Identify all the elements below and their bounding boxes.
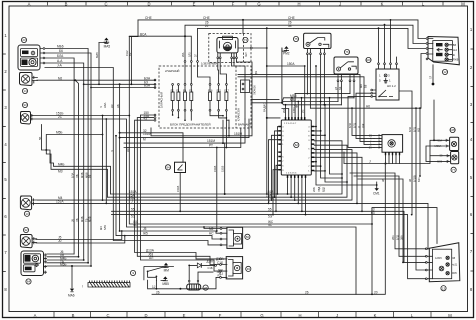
- svg-text:62: 62: [295, 143, 299, 147]
- svg-text:1J: 1J: [152, 285, 156, 289]
- instrument cluster connector U1: [281, 120, 311, 175]
- svg-text:БЛОК ПРЕДОХРАНИТЕЛЕЙ: БЛОК ПРЕДОХРАНИТЕЛЕЙ: [170, 123, 211, 127]
- wire 207 to trapezoid top: [371, 208, 437, 244]
- svg-text:МБ6: МБ6: [57, 45, 64, 49]
- circled label 13: [24, 211, 29, 216]
- horn: [187, 280, 201, 290]
- circled label 14: [22, 88, 27, 93]
- svg-text:БЛ1: БЛ1: [413, 126, 417, 132]
- wire J-A: [45, 64, 220, 245]
- svg-text:Б8: Б8: [364, 84, 368, 88]
- side repeater lamp left: [20, 112, 32, 125]
- fuse bottom joins: [172, 111, 229, 121]
- svg-text:54: 54: [288, 24, 292, 28]
- svg-text:МJ: МJ: [58, 76, 63, 80]
- svg-text:3: 3: [470, 102, 473, 107]
- svg-text:1/КРАСНЫЙ: 1/КРАСНЫЙ: [160, 92, 164, 108]
- left coordinate numbers: [4, 33, 7, 292]
- ground MA6: [68, 266, 75, 298]
- PM2 drop and fan: [251, 48, 354, 109]
- svg-text:6: 6: [4, 214, 7, 219]
- svg-text:4С: 4С: [268, 223, 273, 227]
- svg-text:БЛ2: БЛ2: [408, 126, 412, 132]
- verticals 316-325: [312, 65, 377, 192]
- svg-text:Д5: Д5: [335, 86, 338, 90]
- svg-text:7: 7: [4, 250, 7, 255]
- svg-text:7: 7: [282, 161, 284, 163]
- svg-text:151В: 151В: [221, 166, 225, 172]
- wire labels bottom: [146, 249, 225, 277]
- switch box component 7: [165, 162, 185, 211]
- rear unit wire J6: [47, 250, 74, 254]
- svg-text:E: E: [183, 313, 186, 318]
- right lamp bracket 39A: [426, 100, 447, 161]
- svg-text:4: 4: [4, 142, 7, 147]
- svg-text:2/ЧЕРНЫЙ: 2/ЧЕРНЫЙ: [165, 69, 179, 73]
- fuse bottom bus 43: [135, 117, 220, 259]
- svg-text:6: 6: [282, 165, 284, 167]
- wire B2 vertical: [128, 37, 132, 86]
- svg-text:50: 50: [246, 235, 250, 239]
- wire bus 54: [198, 24, 426, 83]
- rear unit wire TB: [47, 259, 89, 263]
- svg-text:151В: 151В: [176, 186, 180, 192]
- svg-text:МА6: МА6: [68, 294, 75, 298]
- wire fog M4 bus 200: [37, 150, 352, 201]
- svg-text:14E: 14E: [22, 51, 27, 55]
- rear lamp unit left: [21, 251, 44, 276]
- svg-text:М2: М2: [209, 227, 214, 231]
- vertical 224.7: [221, 142, 226, 195]
- svg-text:ВСА: ВСА: [140, 32, 147, 36]
- CM1 drop: [376, 184, 378, 186]
- svg-text:А-А: А-А: [57, 59, 63, 63]
- svg-text:1: 1: [379, 73, 381, 77]
- wire bus 197 25A: [108, 145, 348, 198]
- svg-text:№21: №21: [452, 264, 458, 267]
- svg-text:2: 2: [308, 157, 310, 159]
- svg-text:64: 64: [27, 280, 31, 284]
- svg-text:151В: 151В: [213, 166, 217, 172]
- svg-text:1: 1: [470, 27, 473, 32]
- svg-text:УС: УС: [302, 109, 305, 113]
- wire M5B: [38, 131, 104, 151]
- svg-text:Д: Д: [255, 71, 258, 75]
- fuse bottom bus 25A: [137, 114, 219, 265]
- svg-text:2Б1: 2Б1: [391, 235, 395, 240]
- svg-text:ДЖ: ДЖ: [361, 123, 365, 128]
- motor pin wires: [218, 59, 252, 119]
- svg-text:D: D: [144, 313, 147, 318]
- relay K1 pin drops: [295, 55, 350, 179]
- wiper motor right pin wire: [238, 47, 268, 57]
- svg-text:1 2 3 4 5 6 7: 1 2 3 4 5 6 7: [284, 123, 297, 125]
- svg-text:MM: MM: [22, 62, 26, 66]
- svg-text:J-А: J-А: [57, 64, 63, 68]
- svg-text:93: 93: [23, 103, 27, 107]
- svg-text:6: 6: [470, 212, 473, 217]
- U1 left pins: [278, 127, 284, 172]
- ground MA5 top: [99, 38, 110, 49]
- fog lamp left: [20, 196, 36, 210]
- svg-text:M: M: [448, 313, 452, 318]
- svg-text:8: 8: [4, 287, 7, 292]
- circled label 12: [442, 69, 447, 74]
- svg-text:Б6: Б6: [59, 49, 63, 53]
- svg-text:5ЛБ: 5ЛБ: [103, 225, 107, 230]
- wire M 137: [119, 119, 249, 141]
- circled label 23: [21, 37, 26, 42]
- svg-text:J5: J5: [143, 227, 147, 231]
- svg-text:1 2 3 4 5 6: 1 2 3 4 5 6: [286, 172, 297, 174]
- svg-text:КЛАКСОН: КЛАКСОН: [237, 108, 241, 121]
- svg-text:K: K: [374, 313, 377, 318]
- wire bus 214 5E: [112, 108, 426, 279]
- circled label 75: [293, 36, 298, 41]
- U1 top pins: [284, 117, 305, 125]
- wire 150A: [263, 27, 306, 194]
- rear unit wire LB: [47, 253, 80, 258]
- svg-text:2: 2: [4, 69, 7, 74]
- svg-text:БЛА: БЛА: [57, 54, 64, 58]
- svg-text:M: M: [461, 1, 465, 6]
- svg-text:ЛЮЧОК: ЛЮЧОК: [253, 85, 257, 95]
- svg-text:7: 7: [308, 166, 310, 168]
- svg-text:C: C: [106, 313, 109, 318]
- rear lamp right lower: [437, 152, 459, 173]
- svg-text:Н0: Н0: [366, 104, 370, 108]
- svg-text:2Л: 2Л: [195, 54, 198, 57]
- svg-text:М4Б: М4Б: [80, 216, 84, 222]
- svg-text:38А: 38А: [400, 235, 404, 240]
- fuse box dashed enclosure: [159, 62, 251, 129]
- wire bus 26: [185, 21, 426, 84]
- svg-text:БЛ2: БЛ2: [348, 122, 352, 128]
- turn lamp front left: [19, 73, 37, 86]
- svg-text:38: 38: [381, 179, 385, 182]
- connector ground stub: [430, 65, 435, 86]
- svg-text:С1Б: С1Б: [217, 261, 223, 265]
- circled label 64: [26, 279, 31, 284]
- U1 right pin links: [314, 126, 326, 172]
- U1 bottom pins: [286, 172, 306, 178]
- svg-text:БЛ5: БЛ5: [189, 52, 192, 57]
- svg-text:5: 5: [282, 157, 284, 159]
- svg-text:H: H: [298, 313, 301, 318]
- svg-text:ММ: ММ: [164, 269, 170, 273]
- tail lamp left: [20, 235, 36, 248]
- svg-text:2: 2: [282, 140, 284, 142]
- horn drop diode wire: [188, 265, 213, 281]
- svg-text:Э: Э: [132, 271, 134, 275]
- svg-text:5: 5: [308, 149, 310, 151]
- ground PM2: [282, 46, 290, 55]
- svg-text:14: 14: [23, 89, 27, 93]
- wire H0 bus: [310, 54, 425, 110]
- relay K2 right: [334, 57, 358, 82]
- circled label 92: [23, 227, 28, 232]
- svg-text:B: B: [65, 1, 68, 6]
- U1 bottom pin drops: [288, 178, 306, 215]
- svg-text:РАДИО: РАДИО: [263, 103, 267, 112]
- wire bus 84 to fusebox: [84, 80, 155, 85]
- svg-text:1: 1: [282, 144, 284, 146]
- svg-text:13: 13: [25, 212, 29, 216]
- wire headlamp B6: [45, 49, 92, 266]
- svg-text:3: 3: [388, 73, 390, 77]
- wire 143: [124, 119, 245, 144]
- diode D1: [190, 260, 217, 271]
- svg-text:20Б: 20Б: [312, 187, 316, 192]
- svg-text:БЛА: БЛА: [71, 172, 75, 178]
- circled label 73: [243, 37, 248, 42]
- svg-text:ВД: ВД: [339, 86, 342, 90]
- svg-text:НО: НО: [417, 128, 421, 132]
- svg-text:М4Б: М4Б: [58, 162, 65, 166]
- svg-text:ЛБ: ЛБ: [75, 174, 79, 178]
- svg-text:151А: 151А: [56, 200, 64, 204]
- wire bus 235: [115, 135, 220, 239]
- vertical bundle labels left: [71, 102, 131, 230]
- wire bus 87 to fusebox: [91, 77, 155, 88]
- svg-text:Б5А: Б5А: [144, 84, 151, 88]
- fuse bottom bus 150: [141, 111, 220, 271]
- svg-text:C: C: [104, 1, 107, 6]
- wire tail J5: [36, 230, 123, 240]
- svg-text:М4Б: М4Б: [80, 172, 84, 178]
- svg-text:МВ5: МВ5: [162, 282, 169, 286]
- wiper motor dashed enclosure: [209, 34, 251, 63]
- svg-text:94: 94: [166, 166, 170, 170]
- svg-text:1: 1: [4, 33, 7, 38]
- svg-text:77: 77: [452, 168, 456, 172]
- J bus ignition: [344, 152, 430, 165]
- svg-text:БЛ2: БЛ2: [395, 234, 399, 240]
- svg-text:СНЕ: СНЕ: [145, 16, 152, 20]
- wire bus J5 231: [120, 227, 221, 233]
- stalk drop: [156, 280, 158, 289]
- svg-text:151М: 151М: [143, 132, 151, 136]
- svg-text:Б21: Б21: [417, 177, 421, 182]
- U1 top pin drops: [282, 66, 305, 117]
- wire 147: [124, 128, 241, 148]
- svg-text:5: 5: [470, 175, 473, 180]
- wire 32: [120, 129, 183, 162]
- svg-text:G: G: [260, 313, 263, 318]
- svg-text:5Э: 5Э: [131, 215, 136, 219]
- svg-text:ЛВД: ЛВД: [317, 187, 321, 192]
- svg-text:DIP: DIP: [25, 258, 30, 262]
- svg-text:130С: 130С: [293, 107, 296, 113]
- wire bus CHE top: [138, 16, 426, 39]
- svg-text:№4: №4: [453, 49, 458, 52]
- svg-text:150А: 150А: [287, 62, 295, 66]
- vertical 119: [119, 84, 121, 232]
- svg-text:13: 13: [442, 286, 446, 290]
- switch top pin wires: [359, 19, 397, 88]
- ignition feeds: [348, 93, 374, 147]
- svg-text:73: 73: [244, 38, 248, 42]
- svg-text:1: 1: [308, 171, 310, 173]
- svg-text:12345: 12345: [435, 257, 442, 260]
- svg-text:Ж5: Ж5: [143, 232, 148, 236]
- svg-text:НС: НС: [209, 232, 214, 236]
- ground MB5: [161, 276, 169, 285]
- wire repeater 2C: [33, 115, 356, 294]
- svg-text:PM2: PM2: [283, 52, 290, 56]
- svg-text:23: 23: [22, 38, 26, 42]
- wire 151M: [143, 119, 252, 136]
- svg-text:2: 2: [470, 65, 473, 70]
- svg-text:Ч: Ч: [110, 150, 114, 152]
- ground MM small: [163, 263, 170, 273]
- wiper motor M: [217, 36, 238, 58]
- bottom right trapezoid connector: [425, 243, 459, 282]
- svg-text:55: 55: [268, 207, 272, 211]
- svg-text:J: J: [369, 160, 371, 164]
- wire BCA: [129, 32, 198, 83]
- svg-text:3: 3: [308, 140, 310, 142]
- wire bus 194 151A: [111, 141, 343, 195]
- svg-text:Б6: Б6: [88, 174, 92, 178]
- svg-text:7: 7: [470, 249, 473, 254]
- svg-text:М5Б: М5Б: [60, 263, 67, 267]
- right coordinate numbers: [470, 27, 473, 292]
- svg-text:М5Б: М5Б: [88, 216, 92, 222]
- svg-text:ЗЕЛ: ЗЕЛ: [245, 52, 248, 57]
- wire tail LB: [36, 235, 126, 243]
- svg-text:3: 3: [4, 105, 7, 110]
- svg-text:4: 4: [282, 127, 284, 129]
- svg-text:26А: 26А: [182, 52, 185, 57]
- svg-text:105: 105: [450, 128, 455, 132]
- interior buzzer connector: [217, 257, 251, 279]
- svg-text:20: 20: [374, 290, 378, 294]
- svg-text:K: K: [381, 1, 384, 6]
- svg-text:С1Б: С1Б: [208, 266, 213, 270]
- svg-text:A: A: [34, 313, 37, 318]
- trapezoid feed bundle: [350, 173, 426, 263]
- wire MA5 drop: [95, 43, 100, 86]
- svg-text:D: D: [147, 1, 150, 6]
- vertical 216: [213, 148, 218, 232]
- ignition switch: [369, 133, 403, 155]
- verticals 102 106: [102, 115, 108, 204]
- fusebox small box: [241, 80, 250, 93]
- wire repeater drop: [42, 125, 47, 151]
- svg-text:6: 6: [308, 131, 310, 133]
- svg-text:MA5: MA5: [104, 44, 111, 48]
- svg-text:J6: J6: [71, 219, 75, 222]
- circled label 76: [344, 49, 349, 54]
- fuse exits down: [223, 120, 230, 147]
- svg-text:63: 63: [371, 211, 375, 215]
- relay K2 pin drops: [335, 81, 354, 104]
- svg-text:2С: 2С: [58, 115, 63, 119]
- stalk switch bottom: [130, 266, 174, 280]
- svg-text:ЛЛ: ЛЛ: [430, 75, 433, 79]
- svg-text:ВД2: ВД2: [322, 186, 326, 192]
- svg-text:J0: J0: [58, 239, 62, 243]
- rear unit wire M4B: [47, 256, 85, 261]
- svg-text:J: J: [339, 1, 341, 6]
- svg-text:H: H: [297, 1, 300, 6]
- svg-text:8: 8: [308, 135, 310, 137]
- svg-text:БЛ1: БЛ1: [353, 122, 357, 128]
- svg-text:БВ: БВ: [453, 44, 457, 47]
- bottom bus 20: [152, 164, 385, 296]
- svg-text:5: 5: [4, 177, 7, 182]
- right side verticals to trapezoid: [399, 91, 421, 215]
- rear lamp right upper: [435, 127, 459, 150]
- svg-text:АЛ: АЛ: [149, 256, 153, 260]
- svg-text:МБ: МБ: [359, 84, 363, 88]
- svg-text:ДС: ДС: [110, 104, 114, 108]
- svg-text:G: G: [257, 1, 260, 6]
- svg-text:26: 26: [156, 290, 160, 294]
- circled label 47: [203, 285, 208, 290]
- svg-text:СНЕ: СНЕ: [203, 16, 210, 20]
- wire headlamp MB6: [45, 45, 88, 263]
- svg-text:(: (: [82, 284, 83, 288]
- circled label 13b: [441, 286, 446, 291]
- circled label 93: [22, 102, 27, 107]
- headlamp unit left E1: [18, 45, 40, 70]
- svg-text:J: J: [336, 313, 338, 318]
- ignition bottom pin drops: [386, 155, 400, 163]
- fusebox right exit 76: [238, 77, 374, 145]
- fuses F2 F1 F4 F3: [171, 84, 193, 112]
- svg-text:F: F: [219, 313, 222, 318]
- svg-text:МЗ: МЗ: [58, 170, 63, 174]
- svg-text:43: 43: [144, 117, 148, 121]
- svg-text:12: 12: [443, 70, 447, 74]
- svg-text:М5Б: М5Б: [56, 131, 63, 135]
- svg-text:100: 100: [366, 58, 371, 62]
- wire repeater 151B: [33, 112, 129, 116]
- svg-text:2J: 2J: [205, 24, 209, 28]
- 1J bus: [148, 277, 220, 289]
- vertical 329: [329, 97, 343, 175]
- rear unit wire M5B: [47, 263, 92, 268]
- svg-text:26: 26: [305, 290, 309, 294]
- svg-text:М4: М4: [99, 226, 103, 230]
- wire staircase M3: [46, 150, 107, 197]
- svg-text:8: 8: [470, 287, 473, 292]
- svg-text:5Э: 5Э: [268, 215, 273, 219]
- svg-text:Б2: Б2: [128, 52, 132, 56]
- U1 left pin drops: [268, 127, 279, 216]
- wire fog 151A bus 203: [37, 200, 428, 249]
- svg-text:М05: М05: [452, 272, 457, 275]
- riser 362: [314, 157, 363, 212]
- svg-text:СНЕ: СНЕ: [288, 16, 295, 20]
- small relay G bottom center: [220, 227, 250, 248]
- svg-text:1: 1: [389, 79, 391, 83]
- svg-text:4: 4: [308, 127, 310, 129]
- svg-text:B: B: [72, 313, 75, 318]
- top right connector X1: [426, 37, 459, 65]
- svg-text:Ч: Ч: [99, 106, 103, 108]
- wire staircase M4B: [46, 150, 110, 194]
- svg-text:4: 4: [470, 137, 473, 142]
- svg-text:151М: 151М: [207, 139, 215, 143]
- svg-text:Н0 1.2: Н0 1.2: [387, 84, 396, 88]
- rear unit pins: [44, 254, 47, 274]
- svg-text:М: М: [143, 137, 146, 141]
- svg-text:E: E: [193, 1, 196, 6]
- top coordinate letters: [28, 1, 466, 6]
